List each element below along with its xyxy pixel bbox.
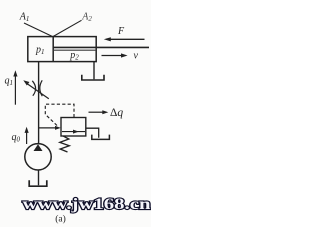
svg-text:v: v: [134, 51, 139, 62]
svg-text:F: F: [117, 26, 125, 37]
svg-text:(a): (a): [55, 214, 66, 225]
svg-text:www.jw168.cn: www.jw168.cn: [23, 196, 151, 213]
svg-text:Δq: Δq: [110, 107, 123, 119]
